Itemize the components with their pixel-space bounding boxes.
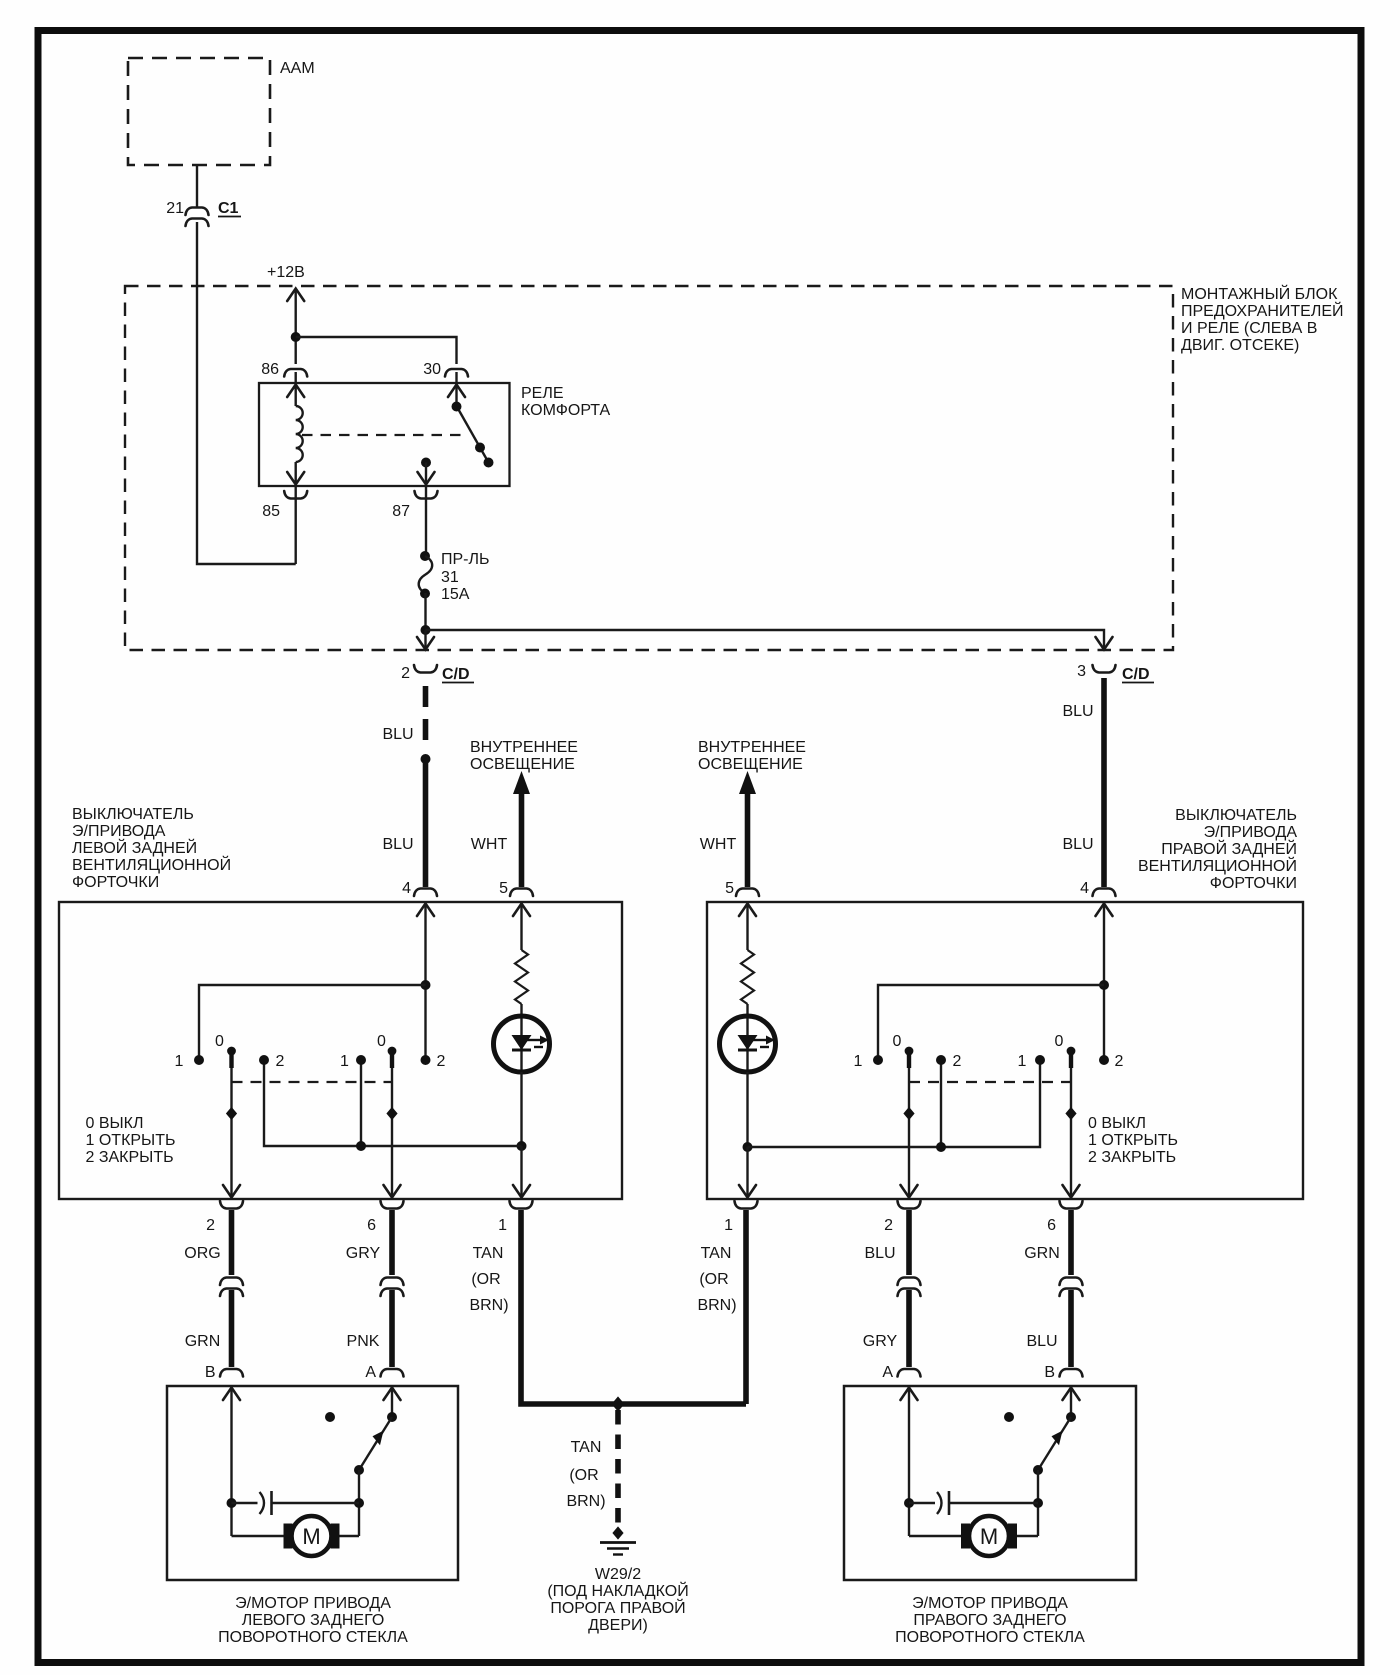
svg-text:ПОРОГА ПРАВОЙ: ПОРОГА ПРАВОЙ: [550, 1598, 685, 1617]
label motor: [895, 1595, 1085, 1646]
svg-text:W29/2: W29/2: [595, 1566, 641, 1583]
label fuse/relay box: [1181, 284, 1344, 354]
svg-text:ОСВЕЩЕНИЕ: ОСВЕЩЕНИЕ: [470, 756, 575, 773]
connector right switch pin 5: [736, 889, 759, 897]
junction motor left: [904, 1498, 914, 1508]
connector label C1: [218, 200, 241, 217]
wire junction to pin 1 right: [739, 1147, 756, 1198]
svg-text:2 ЗАКРЫТЬ: 2 ЗАКРЫТЬ: [86, 1149, 174, 1166]
junction LED/common left: [517, 1141, 527, 1151]
AAM control module box: [128, 58, 270, 165]
label ground W29/2: [547, 1566, 688, 1634]
svg-text:BRN): BRN): [566, 1493, 605, 1510]
connector switch pin 6: [1060, 1201, 1083, 1209]
arrow into connector 2: [417, 630, 434, 650]
svg-text:BLU: BLU: [1062, 703, 1093, 720]
svg-text:GRY: GRY: [346, 1245, 381, 1262]
wire motor right pin: [1063, 1387, 1080, 1417]
junction pin4 crossbar left: [421, 980, 431, 990]
svg-text:ЛЕВОЙ ЗАДНЕЙ: ЛЕВОЙ ЗАДНЕЙ: [72, 838, 197, 857]
svg-text:2: 2: [1115, 1053, 1124, 1070]
motor switch top dot: [387, 1412, 397, 1422]
legend left: [86, 1115, 176, 1166]
contact labels right toggle A: [854, 1033, 962, 1070]
connector 2 C/D: [414, 665, 437, 673]
svg-text:ВЫКЛЮЧАТЕЛЬ: ВЫКЛЮЧАТЕЛЬ: [72, 806, 194, 823]
connector C1 pin 21: [186, 208, 209, 227]
label left switch: [72, 806, 231, 891]
relay comfort box: [259, 383, 510, 486]
label right switch: [1138, 807, 1297, 892]
wire pin 4 into box: [417, 903, 434, 1060]
wire resistor to LED left: [520, 1004, 522, 1072]
svg-text:4: 4: [1080, 880, 1089, 897]
svg-text:1: 1: [1018, 1053, 1027, 1070]
connector switch pin 2: [220, 1201, 243, 1209]
wire C1 to relay pin 85: [197, 222, 296, 564]
svg-text:Э/ПРИВОДА: Э/ПРИВОДА: [72, 823, 166, 840]
svg-text:B: B: [205, 1364, 216, 1381]
splice on left BLU: [421, 754, 431, 764]
relay coil: [296, 406, 303, 462]
LED left: [494, 1016, 550, 1072]
label TAN right: [697, 1245, 736, 1314]
contact dots row left: [194, 1055, 431, 1065]
svg-text:ФОРТОЧКИ: ФОРТОЧКИ: [1210, 875, 1297, 892]
wire BLU: [1068, 1290, 1074, 1367]
svg-text:5: 5: [725, 880, 734, 897]
svg-text:PNK: PNK: [347, 1333, 380, 1350]
wire to relay pin 30: [296, 337, 457, 364]
svg-text:30: 30: [423, 361, 441, 378]
svg-text:(OR: (OR: [569, 1467, 598, 1484]
svg-text:15А: 15А: [441, 586, 470, 603]
svg-text:0 ВЫКЛ: 0 ВЫКЛ: [1088, 1115, 1146, 1132]
wire motor left pin: [901, 1387, 918, 1536]
junction pin4 crossbar right: [1099, 980, 1109, 990]
relay pin 87 terminal: [418, 458, 435, 485]
label fuse: [441, 551, 490, 603]
svg-text:(OR: (OR: [699, 1271, 728, 1288]
wire pin 87 to fuse: [425, 486, 427, 556]
svg-text:ПОВОРОТНОГО СТЕКЛА: ПОВОРОТНОГО СТЕКЛА: [218, 1629, 408, 1646]
connector left switch pin 4: [414, 889, 437, 897]
svg-text:0: 0: [377, 1033, 386, 1050]
svg-text:GRY: GRY: [863, 1333, 898, 1350]
connector right switch pin 1: [735, 1201, 758, 1209]
label interior lighting left: [470, 739, 578, 773]
wire AAM pin 21 down: [196, 165, 198, 207]
svg-text:6: 6: [367, 1217, 376, 1234]
contact labels right toggle B: [1018, 1033, 1124, 1070]
svg-text:2: 2: [884, 1217, 893, 1234]
LED right: [720, 1016, 776, 1072]
svg-text:ВЫКЛЮЧАТЕЛЬ: ВЫКЛЮЧАТЕЛЬ: [1175, 807, 1297, 824]
wire pin 86 into relay: [295, 372, 297, 383]
motor box: [167, 1386, 458, 1580]
wire junction to right C/D: [426, 630, 1105, 648]
junction TAN ground: [612, 1396, 625, 1411]
wire blade down: [1037, 1470, 1039, 1536]
node interior lighting right (WHT): [739, 771, 756, 887]
connector left switch pin 1: [510, 1201, 533, 1209]
svg-text:4: 4: [402, 880, 411, 897]
svg-text:1 ОТКРЫТЬ: 1 ОТКРЫТЬ: [1088, 1132, 1178, 1149]
wire LED to junction right: [746, 1072, 748, 1147]
wire junction to pin 1 left: [513, 1146, 530, 1198]
junction contact1b/common left: [356, 1141, 366, 1151]
svg-text:2: 2: [401, 665, 410, 682]
node +12B power arrow: [287, 289, 304, 365]
label TAN ground: [566, 1439, 605, 1510]
svg-text:WHT: WHT: [700, 836, 737, 853]
svg-text:Э/МОТОР ПРИВОДА: Э/МОТОР ПРИВОДА: [912, 1595, 1068, 1612]
junction 86/30: [291, 332, 301, 342]
svg-text:6: 6: [1047, 1217, 1056, 1234]
motor switch free contact: [325, 1412, 335, 1422]
motor switch free contact: [1004, 1412, 1014, 1422]
connector switch pin 6: [381, 1201, 404, 1209]
svg-text:21: 21: [166, 200, 184, 217]
connector motor pin B: [1060, 1369, 1083, 1377]
toggle lever B left: [384, 1047, 401, 1198]
left window switch box: [59, 902, 622, 1199]
motor switch blade: [1033, 1417, 1071, 1475]
svg-text:0: 0: [893, 1033, 902, 1050]
common bar right: [748, 1060, 1041, 1147]
mech link left (dashed): [232, 1081, 393, 1083]
svg-text:31: 31: [441, 569, 459, 586]
relay mechanical link (dashed): [302, 434, 468, 436]
wire LED to junction left: [520, 1072, 522, 1146]
svg-text:1: 1: [724, 1217, 733, 1234]
motor box: [844, 1386, 1136, 1580]
svg-text:МОНТАЖНЫЙ БЛОК: МОНТАЖНЫЙ БЛОК: [1181, 284, 1338, 303]
toggle lever B right: [1063, 1047, 1080, 1198]
connector relay pin 30: [445, 369, 468, 377]
mech link right (dashed): [909, 1081, 1071, 1083]
svg-text:КОМФОРТА: КОМФОРТА: [521, 402, 611, 419]
wire pin 4 into box right: [1096, 903, 1113, 1060]
fuse F31 15A: [419, 551, 433, 599]
svg-text:2: 2: [437, 1053, 446, 1070]
inline connector GRN/BLU: [1060, 1278, 1083, 1297]
wire pin 30 into relay: [455, 372, 457, 383]
svg-text:0: 0: [1055, 1033, 1064, 1050]
svg-text:ПРЕДОХРАНИТЕЛЕЙ: ПРЕДОХРАНИТЕЛЕЙ: [1181, 301, 1344, 320]
wire GRY: [389, 1210, 395, 1275]
wire GRN: [1068, 1210, 1074, 1275]
label motor: [218, 1595, 408, 1646]
connector 3 C/D: [1093, 665, 1116, 673]
connector label C/D left: [442, 666, 474, 683]
svg-text:AAM: AAM: [280, 60, 315, 77]
contact labels left toggle A: [175, 1033, 285, 1070]
wire contact1b down left: [360, 1060, 362, 1146]
svg-text:ВЕНТИЛЯЦИОННОЙ: ВЕНТИЛЯЦИОННОЙ: [1138, 856, 1297, 875]
svg-text:M: M: [980, 1524, 998, 1549]
svg-text:РЕЛЕ: РЕЛЕ: [521, 385, 564, 402]
svg-text:BLU: BLU: [864, 1245, 895, 1262]
svg-text:ORG: ORG: [184, 1245, 220, 1262]
wire crossbar to contact 1 left: [199, 985, 426, 1060]
svg-text:BLU: BLU: [382, 836, 413, 853]
svg-text:Э/ПРИВОДА: Э/ПРИВОДА: [1204, 824, 1298, 841]
wire BLU (right): [1101, 678, 1107, 887]
svg-text:C1: C1: [218, 200, 239, 217]
svg-text:0 ВЫКЛ: 0 ВЫКЛ: [86, 1115, 144, 1132]
svg-text:1: 1: [498, 1217, 507, 1234]
connector motor pin A: [381, 1369, 404, 1377]
junction contact2a/common right: [936, 1142, 946, 1152]
node interior lighting left (WHT): [513, 771, 530, 887]
toggle lever A left: [223, 1047, 240, 1198]
connector left switch pin 5: [510, 889, 533, 897]
svg-text:ПРАВОГО ЗАДНЕГО: ПРАВОГО ЗАДНЕГО: [913, 1612, 1066, 1629]
wire PNK: [389, 1290, 395, 1367]
svg-text:ЛЕВОГО ЗАДНЕГО: ЛЕВОГО ЗАДНЕГО: [242, 1612, 385, 1629]
wire ORG: [229, 1210, 235, 1275]
wire TAN ground (dashed): [615, 1410, 621, 1526]
svg-text:GRN: GRN: [1024, 1245, 1060, 1262]
motor switch blade: [354, 1417, 392, 1475]
svg-text:ВЕНТИЛЯЦИОННОЙ: ВЕНТИЛЯЦИОННОЙ: [72, 855, 231, 874]
svg-text:GRN: GRN: [185, 1333, 221, 1350]
svg-text:87: 87: [392, 503, 410, 520]
inline connector BLU/GRY: [898, 1278, 921, 1297]
junction motor right: [1033, 1498, 1043, 1508]
svg-text:+12В: +12В: [267, 264, 305, 281]
svg-text:A: A: [882, 1364, 893, 1381]
svg-text:TAN: TAN: [571, 1439, 602, 1456]
wire to motor left brush: [232, 1535, 284, 1537]
junction motor right: [354, 1498, 364, 1508]
svg-text:(OR: (OR: [471, 1271, 500, 1288]
wire to motor right brush: [340, 1535, 360, 1537]
wire pin 5 into box: [513, 903, 530, 950]
wire motor right pin: [384, 1387, 401, 1417]
junction LED/common right: [743, 1142, 753, 1152]
capacitor suppression: [232, 1491, 360, 1515]
svg-text:M: M: [302, 1524, 320, 1549]
svg-text:BRN): BRN): [697, 1297, 736, 1314]
motor M: [284, 1516, 340, 1556]
svg-text:5: 5: [499, 880, 508, 897]
wire GRY: [906, 1290, 912, 1367]
svg-text:(ПОД НАКЛАДКОЙ: (ПОД НАКЛАДКОЙ: [547, 1581, 688, 1600]
arrow into connector 3: [1096, 637, 1113, 650]
svg-text:TAN: TAN: [701, 1245, 732, 1262]
connector relay pin 87: [415, 491, 438, 499]
svg-text:ФОРТОЧКИ: ФОРТОЧКИ: [72, 874, 159, 891]
svg-text:1: 1: [854, 1053, 863, 1070]
connector right switch pin 4: [1093, 889, 1116, 897]
svg-text:ПОВОРОТНОГО СТЕКЛА: ПОВОРОТНОГО СТЕКЛА: [895, 1629, 1085, 1646]
wire TAN right: [743, 1210, 749, 1404]
svg-text:C/D: C/D: [442, 666, 470, 683]
resistor left: [515, 950, 528, 1004]
junction motor left: [227, 1498, 237, 1508]
connector switch pin 2: [898, 1201, 921, 1209]
motor switch top dot: [1066, 1412, 1076, 1422]
connector motor pin A: [898, 1369, 921, 1377]
svg-text:BLU: BLU: [1062, 836, 1093, 853]
wire blade down: [358, 1470, 360, 1536]
wire GRN: [229, 1290, 235, 1367]
contact dots row right: [873, 1055, 1109, 1065]
wire relay pin 85 down: [295, 486, 297, 564]
label TAN left: [469, 1245, 508, 1314]
svg-text:BRN): BRN): [469, 1297, 508, 1314]
connector motor pin B: [220, 1369, 243, 1377]
svg-text:TAN: TAN: [473, 1245, 504, 1262]
relay switch arm arrow: [448, 384, 465, 404]
connector label C/D right: [1122, 666, 1154, 683]
relay coil arrow in: [287, 384, 304, 406]
connector relay pin 86: [284, 369, 307, 377]
common bar left: [264, 1060, 522, 1146]
label relay: [521, 385, 611, 419]
svg-text:WHT: WHT: [471, 836, 508, 853]
svg-text:1: 1: [340, 1053, 349, 1070]
wire fuse to junction: [424, 593, 426, 630]
svg-text:BLU: BLU: [382, 726, 413, 743]
svg-text:BLU: BLU: [1026, 1333, 1057, 1350]
wire motor left pin: [223, 1387, 240, 1536]
svg-text:ДВИГ. ОТСЕКЕ): ДВИГ. ОТСЕКЕ): [1181, 337, 1299, 354]
contact labels left toggle B: [340, 1033, 446, 1070]
wire to motor right brush: [1017, 1535, 1038, 1537]
svg-text:ОСВЕЩЕНИЕ: ОСВЕЩЕНИЕ: [698, 756, 803, 773]
right window switch box: [707, 902, 1303, 1199]
wire BLU solid (left): [423, 759, 429, 887]
svg-text:ПР-ЛЬ: ПР-ЛЬ: [441, 551, 490, 568]
svg-text:ПРАВОЙ ЗАДНЕЙ: ПРАВОЙ ЗАДНЕЙ: [1161, 839, 1297, 858]
wire contact2a down right: [940, 1060, 942, 1147]
relay switch blade: [452, 402, 494, 468]
svg-text:1 ОТКРЫТЬ: 1 ОТКРЫТЬ: [86, 1132, 176, 1149]
wire TAN left: [521, 1210, 746, 1404]
wire resistor to LED right: [746, 1004, 748, 1072]
svg-text:A: A: [365, 1364, 376, 1381]
svg-text:0: 0: [215, 1033, 224, 1050]
junction C/D feed: [421, 625, 431, 635]
fuse and relay box (dashed): [125, 286, 1173, 650]
connector relay pin 85: [284, 491, 307, 499]
svg-text:ВНУТРЕННЕЕ: ВНУТРЕННЕЕ: [470, 739, 578, 756]
wire to motor left brush: [909, 1535, 961, 1537]
wire BLU: [906, 1210, 912, 1275]
capacitor suppression: [909, 1491, 1038, 1515]
svg-text:Э/МОТОР ПРИВОДА: Э/МОТОР ПРИВОДА: [235, 1595, 391, 1612]
svg-text:3: 3: [1077, 663, 1086, 680]
svg-text:2: 2: [276, 1053, 285, 1070]
svg-text:86: 86: [261, 361, 279, 378]
resistor right: [741, 950, 754, 1004]
svg-text:85: 85: [262, 503, 280, 520]
label interior lighting right: [698, 739, 806, 773]
svg-text:2: 2: [206, 1217, 215, 1234]
inline connector GRY/PNK: [381, 1278, 404, 1297]
toggle lever A right: [901, 1047, 918, 1198]
wire pin 5 into box right: [739, 903, 756, 950]
wire BLU dashed (left): [423, 686, 429, 752]
svg-text:1: 1: [175, 1053, 184, 1070]
legend right: [1088, 1115, 1178, 1166]
inline connector ORG/GRN: [220, 1278, 243, 1297]
motor M: [961, 1516, 1017, 1556]
svg-text:И РЕЛЕ (СЛЕВА В: И РЕЛЕ (СЛЕВА В: [1181, 320, 1317, 337]
svg-text:2: 2: [953, 1053, 962, 1070]
relay coil arrow out: [287, 462, 304, 485]
svg-text:B: B: [1044, 1364, 1055, 1381]
wire crossbar to contact 1 right: [878, 985, 1104, 1060]
svg-text:ДВЕРИ): ДВЕРИ): [588, 1617, 648, 1634]
svg-text:2 ЗАКРЫТЬ: 2 ЗАКРЫТЬ: [1088, 1149, 1176, 1166]
svg-text:ВНУТРЕННЕЕ: ВНУТРЕННЕЕ: [698, 739, 806, 756]
ground W29/2: [600, 1526, 636, 1554]
svg-text:C/D: C/D: [1122, 666, 1150, 683]
